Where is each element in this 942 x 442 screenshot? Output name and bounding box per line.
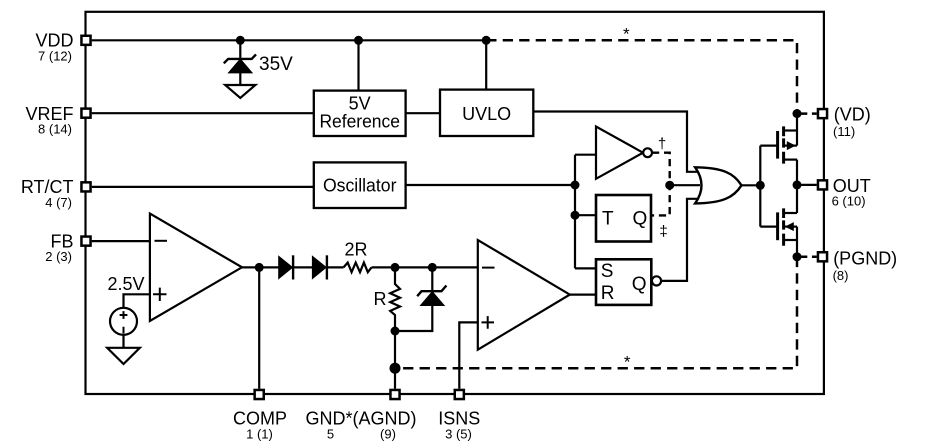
wire RT/CT to Oscillator	[92, 186, 314, 188]
block UVLO	[440, 90, 533, 136]
resistor 2R	[344, 263, 372, 273]
wire 2R to comparator minus input	[372, 266, 478, 268]
svg-text:35V: 35V	[259, 54, 293, 75]
wire to inverter input	[575, 154, 596, 156]
svg-text:UVLO: UVLO	[462, 104, 511, 124]
error amp minus sign	[155, 240, 168, 242]
pin FB	[81, 237, 90, 246]
wire dashed stub to (VD) pin	[801, 112, 817, 115]
transistor Q1 upper MOSFET gate bar	[776, 131, 779, 159]
wire D1 to D2	[293, 266, 313, 268]
node clock-T	[571, 211, 580, 220]
transistor Q2 gate bar	[776, 212, 779, 240]
wire dashed PGND return	[395, 257, 797, 368]
wire gate bus	[759, 146, 761, 227]
transistor Q2 drain stub	[784, 212, 797, 214]
node gate bus	[756, 181, 765, 190]
svg-text:(VD): (VD)	[834, 104, 871, 124]
svg-text:R: R	[374, 289, 387, 309]
node OR input	[665, 181, 674, 190]
wire dashed VD rail	[486, 40, 797, 113]
node PGND	[793, 252, 802, 261]
svg-text:Reference: Reference	[319, 112, 400, 132]
svg-text:7 (12): 7 (12)	[38, 48, 72, 63]
wire 2.5V source to plus input	[124, 294, 150, 308]
wire ISNS to comparator plus input	[459, 322, 478, 388]
diode D2	[313, 258, 325, 278]
block Oscillator	[314, 162, 406, 208]
error amp plus sign	[153, 288, 167, 301]
wire OUT pin	[797, 184, 817, 186]
wire VD to Q1	[796, 114, 798, 146]
comparator minus sign	[482, 267, 495, 269]
svg-text:R: R	[601, 283, 615, 304]
svg-text:(9): (9)	[380, 427, 396, 442]
wire 5V Reference to UVLO	[406, 112, 440, 114]
pin ISNS	[455, 390, 464, 399]
node VDD-UVLO	[482, 36, 491, 45]
wire D2 to resistor 2R	[327, 266, 344, 268]
OR gate U3	[695, 167, 741, 203]
svg-text:†: †	[658, 136, 666, 153]
op-amp current sense comparator	[478, 240, 570, 350]
wire OR gate middle input	[670, 184, 700, 186]
wire dashed stub to (PGND) pin	[801, 256, 817, 259]
resistor R	[390, 267, 400, 388]
op-amp error amplifier	[150, 214, 242, 322]
svg-text:6 (10): 6 (10)	[832, 194, 866, 209]
transistor Q1 channel segments	[782, 126, 785, 163]
svg-text:4 (7): 4 (7)	[45, 195, 72, 210]
pin COMP	[255, 390, 264, 399]
diode D1	[279, 258, 291, 278]
transistor Q2 body stub	[784, 226, 797, 228]
svg-text:S: S	[601, 261, 614, 282]
pin VREF	[81, 109, 90, 118]
svg-text:8 (14): 8 (14)	[38, 121, 72, 136]
svg-text:3 (5): 3 (5)	[445, 427, 472, 442]
svg-text:*: *	[624, 352, 631, 371]
wire OR output	[742, 184, 761, 186]
wire upper gate lead	[760, 145, 776, 147]
svg-text:*: *	[623, 25, 630, 44]
node OUT	[793, 180, 802, 189]
ground (35V zener)	[225, 85, 255, 98]
node R-zener	[391, 327, 400, 336]
svg-text:Q: Q	[632, 274, 647, 295]
wire to T input	[575, 214, 596, 216]
comparator plus sign	[482, 316, 495, 329]
latch S/R	[596, 259, 651, 305]
IC boundary	[86, 12, 824, 394]
wire Oscillator output	[406, 184, 575, 186]
transistor Q1 source stub	[784, 159, 797, 161]
wire comparator output to R input	[570, 294, 596, 296]
transistor Q2 source stub	[784, 239, 797, 241]
pin GND	[390, 390, 399, 399]
voltage source 2.5V	[110, 308, 137, 335]
wire VREF to 5V Reference	[92, 112, 313, 114]
svg-text:Q: Q	[633, 208, 648, 229]
svg-text:‡: ‡	[659, 223, 667, 240]
wire Q-bar to OR gate bottom input	[661, 199, 697, 281]
zener D3 cathode bar	[417, 286, 446, 297]
svg-text:(11): (11)	[833, 124, 855, 139]
wire Q2 source to PGND	[796, 227, 798, 257]
svg-text:5: 5	[327, 427, 334, 442]
svg-text:(8): (8)	[833, 268, 849, 283]
wire COMP pin	[258, 267, 260, 388]
transistor Q2 lower MOSFET drain wire	[796, 185, 798, 213]
wire Q1 source to OUT	[796, 160, 798, 185]
svg-text:2 (3): 2 (3)	[45, 249, 72, 264]
latch Q-bar bubble	[652, 276, 661, 285]
wire FB to error amp	[92, 240, 150, 242]
inverter output bubble	[643, 148, 652, 157]
wire zener to ground	[239, 72, 241, 85]
wire lower gate lead	[760, 226, 776, 228]
node 2R-zener	[428, 263, 437, 272]
zener D3 lead	[431, 267, 433, 290]
wire error amp output	[242, 266, 279, 268]
svg-text:Oscillator: Oscillator	[323, 176, 397, 196]
pin RT/CT	[81, 182, 90, 191]
zener 35V anode triangle	[230, 60, 251, 72]
inverter U2	[596, 127, 643, 179]
pin VDD	[81, 36, 90, 45]
pin OUT	[818, 180, 827, 189]
transistor Q1 drain stub	[784, 129, 797, 131]
wire clock vertical bus	[574, 155, 576, 269]
svg-text:(PGND): (PGND)	[833, 248, 897, 268]
wire VDD to UVLO	[485, 40, 487, 89]
node clock-inverter	[571, 181, 580, 190]
wire to S input	[575, 267, 596, 269]
transistor Q2 body arrow	[785, 222, 794, 231]
wire UVLO output to OR gate top input	[533, 112, 697, 172]
svg-text:2R: 2R	[344, 239, 367, 259]
node 2R-R	[391, 263, 400, 272]
wire VDD rail	[92, 39, 487, 41]
pin PGND	[818, 252, 827, 261]
svg-text:GND*(AGND): GND*(AGND)	[306, 409, 417, 429]
node COMP	[255, 263, 264, 272]
wire source to ground	[122, 335, 124, 348]
transistor Q1 body stub	[784, 145, 797, 147]
svg-text:T: T	[602, 208, 614, 229]
flip-flop T	[596, 195, 651, 242]
transistor Q2 channel segments	[782, 208, 785, 245]
block 5V Reference	[314, 91, 406, 136]
wire zener lead from VDD	[239, 40, 241, 59]
pin VD	[818, 109, 827, 118]
node VDD-5VRef	[354, 36, 363, 45]
zener 35V cathode bar	[224, 54, 256, 63]
zener D3 anode triangle	[422, 293, 443, 305]
wire VDD to 5V Reference	[357, 40, 359, 90]
transistor Q1 body arrow	[787, 141, 796, 150]
node VDD-zener	[236, 36, 245, 45]
node GND-dashed	[390, 363, 401, 374]
svg-text:2.5V: 2.5V	[107, 274, 144, 294]
svg-text:1 (1): 1 (1)	[246, 427, 273, 442]
wire dashed inverter output	[651, 153, 670, 216]
ground (2.5V source)	[107, 348, 140, 364]
node VD	[793, 109, 802, 118]
wire zener bottom link	[395, 305, 432, 331]
svg-text:5V: 5V	[349, 93, 371, 113]
